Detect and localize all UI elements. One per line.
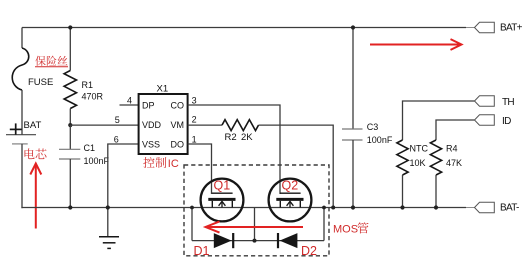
svg-text:DP: DP (142, 100, 155, 110)
node C1 / bottom rail junction (68, 205, 72, 209)
svg-text:6: 6 (114, 135, 119, 145)
svg-text:ID: ID (502, 116, 511, 127)
svg-text:5: 5 (115, 115, 120, 125)
wire diode branch right drop (323, 208, 325, 241)
capacitor C1 (59, 149, 80, 159)
wire VDD node to pin 5 (70, 124, 138, 126)
transistor Q1 (MOSFET) (201, 179, 244, 222)
svg-text:DO: DO (171, 139, 185, 149)
wire pin 2 (VM) to R2 (188, 124, 222, 126)
arrow current flow left (red) (206, 221, 304, 232)
svg-text:1: 1 (192, 134, 197, 144)
svg-text:VSS: VSS (142, 139, 160, 149)
node top rail / R1 junction (68, 25, 72, 29)
svg-text:3: 3 (192, 95, 197, 105)
svg-text:C1: C1 (84, 143, 96, 153)
arrow current flow right (red) (370, 39, 462, 50)
node VDD junction (68, 123, 72, 127)
svg-text:C3: C3 (367, 122, 379, 132)
node R4 / bottom rail junction (434, 205, 438, 209)
wire TH to NTC (403, 101, 475, 140)
label 保险丝 (red, underlined) (35, 56, 68, 67)
node diode branch middle junction (253, 239, 257, 243)
wire ID to R4 (436, 120, 475, 140)
label MOS管 (red) (333, 222, 369, 235)
svg-text:FUSE: FUSE (28, 77, 53, 88)
wire pin 1 (DO) to Q1 gate (188, 144, 212, 194)
wire C1 to bottom rail (69, 159, 71, 208)
wire NTC to bottom rail (402, 175, 404, 208)
MOS block outline (dashed box) (184, 165, 329, 256)
wire top rail to C3 (352, 28, 354, 130)
diode D1 (214, 233, 233, 248)
label 电芯 (red) (25, 148, 47, 159)
svg-text:R2: R2 (225, 132, 237, 143)
connector BAT- (475, 202, 495, 212)
svg-text:X1: X1 (157, 84, 169, 95)
resistor R2 (222, 120, 259, 131)
svg-text:2: 2 (192, 115, 197, 125)
node diode branch right junction (322, 206, 326, 210)
wire pin 3 (CO) to Q2 gate (188, 105, 280, 194)
wire R1 to VDD node (69, 109, 71, 126)
connector TH (475, 96, 495, 106)
thermistor NTC (397, 140, 408, 175)
svg-text:TH: TH (502, 97, 514, 108)
svg-text:Q1: Q1 (214, 179, 231, 193)
svg-text:R4: R4 (446, 143, 458, 153)
wire diode branch left drop (191, 208, 193, 241)
wire VDD node to C1 (69, 125, 71, 149)
svg-text:BAT-: BAT- (500, 202, 519, 213)
svg-text:BAT: BAT (24, 120, 42, 131)
node VM / bottom rail junction (331, 206, 335, 210)
svg-text:D1: D1 (194, 244, 210, 258)
svg-text:Q2: Q2 (282, 179, 299, 193)
wire BAT+ port lead (466, 27, 475, 29)
wire top rail to R1 (69, 28, 71, 71)
svg-text:NTC: NTC (410, 143, 429, 153)
fuse FUSE (S-curve symbol) (12, 48, 29, 90)
capacitor C3 (342, 129, 363, 140)
node NTC / bottom rail junction (400, 205, 404, 209)
wire pin 6 (VSS) to ground (108, 144, 139, 237)
battery BT1 minus plate (12, 143, 28, 145)
label + (battery polarity) (10, 123, 22, 134)
resistor R4 (430, 140, 441, 175)
wire bottom rail (B- net) (21, 207, 466, 209)
arrow current flow up (red) (30, 164, 41, 229)
wire diode branch bottom (192, 240, 324, 242)
svg-text:IC: IC (168, 158, 179, 170)
svg-text:100nF: 100nF (84, 156, 110, 166)
svg-text:100nF: 100nF (367, 135, 393, 145)
wire BAT- port lead (466, 207, 475, 209)
ground (99, 237, 119, 249)
label 控制IC (red) (143, 157, 179, 170)
svg-text:470R: 470R (82, 92, 104, 102)
wire fuse to battery (21, 90, 23, 135)
svg-text:CO: CO (171, 100, 185, 110)
op-amp U1 (control IC X1 body) (139, 94, 188, 154)
battery BT1 plus plate (6, 134, 36, 136)
svg-text:2K: 2K (241, 132, 253, 143)
connector BAT+ (475, 22, 495, 32)
svg-text:R1: R1 (82, 80, 94, 90)
svg-text:4: 4 (127, 96, 132, 106)
svg-text:VM: VM (171, 120, 185, 130)
node diode branch left junction (190, 206, 194, 210)
svg-text:BAT+: BAT+ (500, 23, 523, 34)
wire top rail (BAT+ net) (22, 27, 466, 29)
svg-text:10K: 10K (410, 158, 426, 168)
wire C3 to bottom rail (352, 140, 354, 208)
transistor Q2 (MOSFET) (269, 179, 312, 222)
wire diode branch middle drop (254, 208, 256, 241)
wire left rail upper (BAT+ to fuse) (21, 28, 23, 49)
svg-text:VDD: VDD (142, 120, 162, 130)
svg-text:D2: D2 (301, 244, 317, 258)
node top rail / C3 junction (351, 25, 355, 29)
wire R4 to bottom rail (435, 175, 437, 208)
node VSS / bottom rail junction (106, 205, 110, 209)
connector ID (475, 115, 495, 125)
svg-text:MOS: MOS (333, 224, 358, 236)
svg-text:47K: 47K (446, 158, 462, 168)
diode D2 (278, 233, 297, 248)
node C3 / bottom rail junction (351, 205, 355, 209)
wire R2 to bottom rail (259, 125, 334, 207)
wire battery to bottom rail (21, 144, 23, 208)
wire pin 4 stub (DP) (120, 104, 139, 106)
resistor R1 (64, 71, 76, 109)
